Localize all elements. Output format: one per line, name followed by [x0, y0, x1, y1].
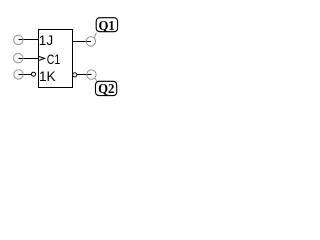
- leader to Q1 label: [94, 33, 96, 38]
- leader to Q2 label: [95, 78, 97, 81]
- label box Q2: [96, 81, 117, 95]
- svg-text:Q1: Q1: [98, 18, 114, 33]
- clock edge triangle: [39, 57, 45, 61]
- svg-text:C1: C1: [47, 52, 60, 67]
- flip-flop body U1: [39, 30, 73, 88]
- wire J input: [18, 39, 38, 41]
- terminal J input: [14, 35, 23, 44]
- svg-text:Q2: Q2: [98, 81, 115, 96]
- label box Q1: [96, 18, 117, 32]
- wire C clock input: [18, 58, 38, 60]
- svg-text:1J: 1J: [39, 33, 53, 48]
- terminal K input: [14, 70, 23, 79]
- svg-text:1K: 1K: [39, 69, 56, 84]
- wire K input: [18, 74, 31, 76]
- terminal Q1 output: [86, 37, 95, 46]
- terminal Q2 output: [87, 70, 96, 79]
- terminal C input: [14, 53, 23, 62]
- inversion bubble on Q-bar output: [73, 73, 77, 77]
- wire Q output: [73, 41, 92, 43]
- inversion bubble on K input: [32, 72, 36, 76]
- wire Q-bar output: [77, 74, 92, 76]
